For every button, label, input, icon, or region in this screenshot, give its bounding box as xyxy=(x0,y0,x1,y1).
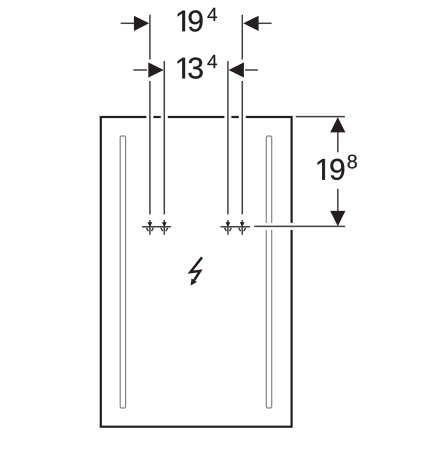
dimension 19.8 top extension line xyxy=(296,116,345,118)
extension line outer-right x=242.3 (broken by 13.4 arrowhead) xyxy=(241,15,243,215)
left light strip xyxy=(120,136,125,408)
dimension 19.4 right arrowhead xyxy=(243,16,258,31)
dimension 13.4 right tail xyxy=(245,69,258,71)
extension line inner-left x=164.3 xyxy=(163,61,165,214)
dimension 19.4 left arrowhead xyxy=(134,16,149,31)
dimension label 13^4 xyxy=(178,55,217,79)
dimension 13.4 left arrowhead xyxy=(148,62,163,77)
dimension 19.8 vertical line lower segment xyxy=(337,189,339,212)
mounting point 3 x=227.9 xyxy=(225,220,232,235)
dimension 19.8 bottom extension line xyxy=(254,225,345,227)
mounting point 2 x=164.3 xyxy=(161,220,168,235)
dimension 19.4 left tail xyxy=(121,22,135,24)
dimension label 19^8 xyxy=(318,155,357,180)
mounting bar left pair xyxy=(142,226,171,228)
white halo gap where 19.8 bottom extension line crosses right strip and mirror edge xyxy=(254,223,295,230)
lightning bolt symbol xyxy=(190,257,202,285)
mounting point 1 x=149.9 xyxy=(147,220,154,235)
dimension 19.8 down arrowhead xyxy=(330,211,345,226)
dimension label 19^4 xyxy=(178,8,217,32)
dimension 13.4 right arrowhead xyxy=(229,62,244,77)
white halo gaps where extension lines cross mirror top edge xyxy=(146,112,153,121)
extension line inner-right x=227.9 xyxy=(227,61,229,214)
mounting bar right pair xyxy=(221,226,251,228)
extension line outer-left x=149.9 (broken by 13.4 arrowhead) xyxy=(149,15,151,215)
dimension 19.8 up arrowhead xyxy=(330,117,345,132)
mirror outline xyxy=(101,117,292,427)
dimension 19.8 vertical line upper segment xyxy=(337,132,339,153)
mounting point 4 x=242.2 xyxy=(239,220,246,235)
dimension 13.4 left tail xyxy=(133,69,147,71)
right light strip xyxy=(266,136,271,408)
dimension 19.4 right tail xyxy=(258,22,271,24)
